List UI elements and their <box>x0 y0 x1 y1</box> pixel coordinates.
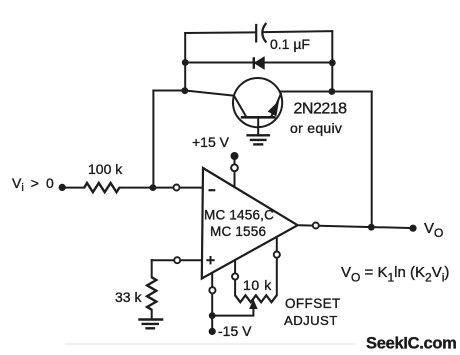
wire transistor base lead <box>257 117 259 135</box>
wire right drop to output <box>371 92 373 228</box>
wire 33k bottom lead <box>151 310 153 319</box>
node emitter junction <box>329 88 336 95</box>
svg-text:MC 1456,C: MC 1456,C <box>204 208 274 223</box>
wire emitter to right <box>280 91 372 93</box>
pin offset null 2 open circle <box>274 252 280 258</box>
wire left drop to input node <box>152 91 154 188</box>
svg-text:VO: VO <box>424 220 443 240</box>
svg-text:ADJUST: ADJUST <box>284 313 338 328</box>
node input terminal Vi <box>59 184 66 191</box>
svg-text:0.1 µF: 0.1 µF <box>270 36 310 52</box>
wire output <box>300 225 414 228</box>
ground under transistor <box>246 135 270 144</box>
svg-text:10 k: 10 k <box>243 277 272 293</box>
svg-text:or equiv: or equiv <box>290 120 342 136</box>
transistor Q1 2N2218 <box>233 78 282 127</box>
wire top capacitor rail left segment <box>185 31 256 34</box>
pin output open circle <box>313 223 319 229</box>
svg-text:SeekIC.com: SeekIC.com <box>366 335 457 353</box>
wire -15V pin lead <box>211 273 213 332</box>
node -15V terminal <box>209 328 216 335</box>
wire +15V supply lead <box>234 156 236 188</box>
node wiper junction <box>209 312 216 319</box>
diode CR1 <box>254 57 264 69</box>
node input junction <box>150 184 157 191</box>
op-amp U1 <box>202 168 298 279</box>
svg-text:+15 V: +15 V <box>192 134 230 150</box>
capacitor C1 0.1uF <box>256 23 266 43</box>
node base feed junction <box>181 87 188 94</box>
node diode left junction <box>182 59 189 66</box>
pin offset null 1 open circle <box>232 273 238 279</box>
wire base feed horizontal <box>153 91 233 96</box>
node +15V terminal <box>231 152 239 160</box>
op-amp plus sign <box>206 256 214 264</box>
svg-text:100 k: 100 k <box>88 161 123 177</box>
wire offset pin left lead <box>234 260 236 296</box>
wire offset pin right lead <box>276 236 278 295</box>
wire right feedback rail <box>331 31 333 91</box>
wire top capacitor rail right segment <box>265 30 333 33</box>
svg-text:2N2218: 2N2218 <box>294 101 348 118</box>
wire noninverting pin <box>152 259 203 261</box>
potentiometer R3 10k <box>235 295 277 302</box>
wire input left <box>62 187 84 189</box>
wire 33k top lead <box>151 260 153 277</box>
wire input to inverting pin <box>120 187 204 189</box>
wire diode rail <box>185 62 332 64</box>
svg-text:Vi > 0: Vi > 0 <box>12 175 54 194</box>
svg-text:33 k: 33 k <box>115 289 142 305</box>
pin noninverting input open circle <box>174 257 180 263</box>
svg-text:VO = K1ln (K2Vi): VO = K1ln (K2Vi) <box>341 264 449 285</box>
pin V+ open circle <box>231 164 238 171</box>
pin inverting input open circle <box>174 185 180 191</box>
resistor R1 100k <box>84 183 119 192</box>
svg-text:MC 1556: MC 1556 <box>210 224 266 239</box>
node output terminal VO <box>409 225 416 232</box>
ground under 33k <box>138 320 163 329</box>
resistor R2 33k <box>147 277 156 309</box>
potentiometer wiper arrow <box>250 301 257 309</box>
scan artifact faint line <box>65 343 356 345</box>
svg-text:OFFSET: OFFSET <box>285 296 341 311</box>
op-amp minus sign <box>209 189 216 191</box>
pin V- open circle <box>209 287 215 293</box>
node diode right junction <box>329 59 336 66</box>
wire wiper to -15V rail <box>212 307 253 316</box>
node output junction <box>368 224 375 231</box>
wire left feedback rail <box>184 33 186 91</box>
svg-text:-15 V: -15 V <box>218 323 252 339</box>
